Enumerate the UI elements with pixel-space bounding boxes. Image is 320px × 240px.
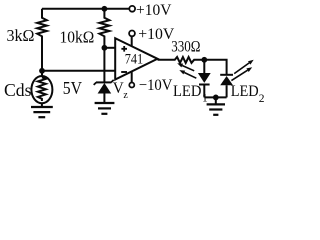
svg-text:3kΩ: 3kΩ — [7, 26, 35, 45]
svg-text:−10V: −10V — [139, 77, 173, 94]
svg-text:1: 1 — [202, 92, 208, 104]
svg-text:10kΩ: 10kΩ — [60, 27, 95, 46]
svg-text:LED: LED — [231, 83, 259, 100]
svg-text:Cds: Cds — [4, 80, 32, 100]
svg-text:+10V: +10V — [138, 26, 174, 43]
svg-text:330Ω: 330Ω — [171, 39, 200, 56]
svg-text:z: z — [123, 90, 128, 101]
svg-text:LED: LED — [173, 83, 201, 100]
svg-text:5V: 5V — [63, 78, 82, 98]
svg-text:741: 741 — [125, 51, 144, 67]
svg-text:+10V: +10V — [136, 2, 172, 19]
svg-text:2: 2 — [259, 93, 264, 105]
